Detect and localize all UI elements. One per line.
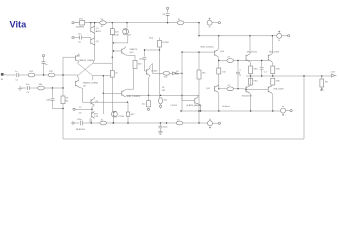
svg-text:0.1: 0.1 xyxy=(264,71,268,73)
svg-text:2SA970_GR(M): 2SA970_GR(M) xyxy=(79,59,95,62)
transistor Q4 diff pair upper xyxy=(76,53,95,62)
node tail xyxy=(103,75,104,76)
transistor Q12 output xyxy=(246,36,258,66)
svg-text:0R5: 0R5 xyxy=(276,68,281,70)
capacitor C2 rf filter xyxy=(42,55,49,76)
svg-text:Q4: Q4 xyxy=(77,55,81,57)
wire bias spreader verticals xyxy=(182,52,214,123)
transistor Q2 xyxy=(91,38,100,46)
svg-text:NFB2000: NFB2000 xyxy=(76,129,86,131)
node chain joins xyxy=(113,122,114,123)
svg-text:5W: 5W xyxy=(162,90,166,92)
capacitor C6 xyxy=(72,34,91,44)
node out joins xyxy=(250,75,251,76)
node mirror base tap xyxy=(103,93,104,94)
svg-text:MJL21193: MJL21193 xyxy=(242,96,253,98)
node base lower xyxy=(245,89,246,90)
resistor R24 emitter lower xyxy=(271,78,281,85)
connector J1 input xyxy=(1,73,16,81)
svg-text:8R: 8R xyxy=(325,82,328,84)
node Q1 collector xyxy=(90,22,91,23)
svg-text:100: 100 xyxy=(163,99,167,101)
svg-text:MJL21194: MJL21194 xyxy=(269,52,280,54)
wire mirror cross xyxy=(83,92,128,103)
svg-text:C1: C1 xyxy=(15,80,19,82)
resistor R5 feedback xyxy=(61,96,69,104)
svg-text:2K2: 2K2 xyxy=(202,72,207,74)
svg-text:1K: 1K xyxy=(162,87,165,89)
resistor R22 emitter xyxy=(271,66,281,76)
wire diff collector top xyxy=(93,62,113,64)
svg-text:C: C xyxy=(240,70,242,72)
node driver emitter join xyxy=(218,88,219,89)
node T3 join xyxy=(91,109,92,110)
svg-text:Q11: Q11 xyxy=(206,88,211,90)
node spreader xyxy=(181,51,182,52)
svg-text:22u: 22u xyxy=(142,104,146,106)
svg-text:2K2: 2K2 xyxy=(29,71,34,73)
transistor Q3 xyxy=(114,23,129,43)
node mirror top 2 xyxy=(126,22,127,23)
svg-text:4K7: 4K7 xyxy=(131,114,136,116)
wire diff cross xyxy=(78,62,93,76)
resistor R7 xyxy=(100,19,107,28)
svg-text:47: 47 xyxy=(115,72,118,74)
resistor R14 xyxy=(133,55,142,68)
connector output xyxy=(331,72,337,78)
resistor R19 base upper xyxy=(219,57,268,63)
svg-text:220: 220 xyxy=(164,77,168,79)
node vas mid xyxy=(159,49,160,50)
resistor R23 emitter lower xyxy=(249,78,259,85)
capacitor C8 top test xyxy=(162,7,169,23)
resistor R8 mirror xyxy=(110,23,119,58)
capacitor C5 feedback xyxy=(46,88,63,109)
svg-text:2SA970_GR(M): 2SA970_GR(M) xyxy=(83,82,99,85)
svg-text:MJE_15030/1: MJE_15030/1 xyxy=(201,47,215,49)
wire bottom feedback rail xyxy=(63,138,304,140)
svg-text:2p: 2p xyxy=(45,64,48,66)
wire rail drop vertical xyxy=(198,23,200,36)
svg-text:C2240: C2240 xyxy=(118,116,125,118)
capacitor C9 miller xyxy=(139,50,147,71)
resistor R15 vas emitter xyxy=(159,87,168,105)
svg-text:10u: 10u xyxy=(78,34,82,36)
svg-text:1K: 1K xyxy=(66,98,69,100)
resistor R13 vas load xyxy=(149,38,170,98)
wire vas link xyxy=(145,49,160,51)
transistor Q1 xyxy=(91,22,102,63)
svg-text:4.6: 4.6 xyxy=(79,112,83,114)
node feedback tap xyxy=(62,74,63,75)
svg-text:Rb: Rb xyxy=(176,74,180,76)
node q9 emitter rail xyxy=(200,110,201,111)
transistor Q14 output lower xyxy=(242,76,253,111)
svg-text:R5: R5 xyxy=(66,100,70,102)
transistor Q8 vas xyxy=(145,66,159,76)
svg-text:IN: IN xyxy=(1,79,4,81)
node miller xyxy=(144,49,145,50)
svg-text:CLASS_AB(adj): CLASS_AB(adj) xyxy=(186,104,202,107)
node input junction xyxy=(43,74,44,75)
capacitor C7 xyxy=(77,119,83,125)
svg-text:MJL21193: MJL21193 xyxy=(274,89,285,91)
svg-text:Q10: Q10 xyxy=(220,51,225,53)
svg-text:2SA970: 2SA970 xyxy=(129,48,137,51)
resistor R6 xyxy=(76,19,101,29)
resistor R12 rail dropper xyxy=(177,19,184,25)
node mirror cross xyxy=(127,102,128,103)
connector T3 xyxy=(73,107,92,114)
svg-text:OnSemi: OnSemi xyxy=(222,106,230,108)
svg-text:C8: C8 xyxy=(162,14,166,16)
wire Q6 emitter xyxy=(90,119,92,123)
resistor R9 xyxy=(110,57,118,108)
node mirror top xyxy=(112,22,113,23)
node Q12 rail xyxy=(249,35,250,36)
resistor R26 load xyxy=(320,76,328,91)
svg-text:100: 100 xyxy=(222,71,226,73)
node driver lower rail xyxy=(218,110,219,111)
node Q13 rail xyxy=(272,35,273,36)
resistor R10 xyxy=(100,119,107,125)
resistor R11 xyxy=(126,112,135,123)
transistor Q5 diff pair lower xyxy=(76,76,99,92)
node diff top xyxy=(112,57,113,58)
supply V+2 terminal xyxy=(277,31,290,40)
node lower rail joins xyxy=(250,110,251,111)
svg-text:Q3: Q3 xyxy=(128,34,132,36)
resistor R21 emitter xyxy=(249,66,259,76)
ground star point xyxy=(159,105,161,109)
svg-text:0R5: 0R5 xyxy=(254,68,259,70)
transistor Q13 output xyxy=(268,36,280,66)
svg-text:0R5: 0R5 xyxy=(254,81,259,83)
resistor R4 xyxy=(38,84,63,90)
transistor Q15 output lower xyxy=(246,85,284,111)
transistor Q6 xyxy=(91,97,99,109)
svg-text:47u: 47u xyxy=(26,84,30,86)
svg-text:0.33: 0.33 xyxy=(94,116,99,118)
wire +V upper rail R1 xyxy=(75,22,200,24)
svg-text:100MW5: 100MW5 xyxy=(76,27,85,29)
transistor Q7 xyxy=(112,108,125,123)
svg-text:1u: 1u xyxy=(15,71,18,73)
capacitor C12 xyxy=(260,60,268,76)
svg-text:100p: 100p xyxy=(139,58,145,60)
capacitor C4 xyxy=(26,84,38,94)
svg-text:C2240: C2240 xyxy=(112,34,119,36)
wire second rail R2 xyxy=(199,35,276,37)
wire Q8 base xyxy=(103,92,122,94)
node drop bottom xyxy=(198,35,199,36)
node base upper xyxy=(218,60,219,61)
wire tail xyxy=(102,76,104,114)
supply V-2 terminal xyxy=(208,119,221,128)
node C8 rail xyxy=(167,22,168,23)
resistor R3 xyxy=(48,71,77,77)
node mirror link xyxy=(113,42,114,43)
capacitor C1 input xyxy=(15,71,28,81)
node V- drop xyxy=(198,110,199,111)
svg-text:A970: A970 xyxy=(96,30,102,33)
svg-text:100u: 100u xyxy=(46,100,52,102)
svg-text:1.2: 1.2 xyxy=(79,107,83,109)
wire output rail xyxy=(246,75,332,77)
node shunt junction xyxy=(52,87,53,88)
connector T1 bias xyxy=(72,22,80,24)
svg-text:C6: C6 xyxy=(78,41,82,43)
capacitor C10 vas emitter xyxy=(142,76,151,111)
node feedback shunt xyxy=(62,87,63,88)
node drop top xyxy=(198,22,199,23)
svg-text:680: 680 xyxy=(39,84,43,86)
ground input return xyxy=(18,86,27,90)
svg-text:1K: 1K xyxy=(176,71,179,73)
wire negative rail R3 xyxy=(181,110,281,112)
wire diff collector bottom xyxy=(93,76,113,80)
svg-text:OUT: OUT xyxy=(331,72,336,74)
resistor R20 base lower xyxy=(219,85,245,91)
node R10 out xyxy=(113,122,114,123)
supply V- terminal xyxy=(281,107,293,116)
svg-text:MJL21194: MJL21194 xyxy=(247,52,258,54)
svg-text:Q5: Q5 xyxy=(83,85,87,87)
svg-text:220: 220 xyxy=(115,31,119,33)
transistor Q10 driver upper xyxy=(201,36,225,68)
node feedback cap join xyxy=(62,108,63,109)
wire V- decoupling chain xyxy=(74,122,208,124)
svg-text:1K/3W: 1K/3W xyxy=(162,42,169,44)
svg-text:R13: R13 xyxy=(149,38,154,40)
wire H1 vas emitter bus xyxy=(127,94,200,96)
supply V+ terminal xyxy=(207,18,220,27)
transistor Q9 vas2 xyxy=(171,95,202,111)
transistor Q18 xyxy=(90,109,99,123)
svg-text:Q2: Q2 xyxy=(96,41,100,43)
svg-text:22K: 22K xyxy=(49,71,53,73)
svg-text:C3423: C3423 xyxy=(151,71,158,73)
svg-text:MJE_15003/5: MJE_15003/5 xyxy=(127,96,141,98)
capacitor C11 xyxy=(158,122,168,134)
connector T4 xyxy=(72,122,86,131)
diode D1 xyxy=(173,72,176,75)
transistor Q16 cascode xyxy=(113,46,138,55)
svg-text:330: 330 xyxy=(138,63,142,65)
transistor Q11 driver lower xyxy=(206,85,219,111)
resistor R25 nfb xyxy=(176,119,183,125)
resistor R17 xyxy=(176,70,206,79)
transistor Q17 mirror xyxy=(122,68,141,98)
wire mirror drop xyxy=(127,102,130,112)
resistor R2 input series xyxy=(28,71,48,77)
svg-text:100n: 100n xyxy=(163,127,169,129)
wire output right vertical xyxy=(303,76,305,139)
svg-text:Vita: Vita xyxy=(10,20,28,30)
resistor R16 xyxy=(163,71,170,78)
node C7 junction xyxy=(91,122,92,123)
svg-text:C3423: C3423 xyxy=(171,105,178,107)
wire feedback left vertical xyxy=(63,57,76,139)
node driver rail xyxy=(218,35,219,36)
node bias top xyxy=(181,73,182,74)
capacitor C13 base coupling xyxy=(236,60,242,90)
svg-text:R: R xyxy=(240,75,242,77)
wire vas out chain xyxy=(150,64,182,74)
svg-text:220u: 220u xyxy=(77,119,83,121)
svg-text:C4: C4 xyxy=(26,92,30,94)
resistor R18 xyxy=(217,68,227,89)
svg-text:0R5: 0R5 xyxy=(276,81,281,83)
svg-text:Q16: Q16 xyxy=(129,52,134,54)
svg-text:R7: R7 xyxy=(101,26,105,28)
